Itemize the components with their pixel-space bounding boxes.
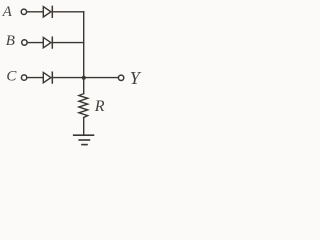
wire D2 cathode to bus	[53, 42, 84, 44]
svg-text:R: R	[94, 98, 105, 115]
wire D3 cathode to junction	[53, 77, 84, 79]
node A input terminal	[21, 9, 26, 14]
junction node dot	[82, 76, 86, 80]
resistor R zigzag	[79, 94, 88, 118]
wire C terminal to diode D3 anode	[27, 77, 43, 79]
node Y output terminal	[118, 75, 123, 80]
svg-text:A: A	[2, 4, 13, 20]
diode D2 (input B)	[43, 37, 51, 47]
wire D1 cathode to bus	[53, 11, 84, 13]
node B input terminal	[22, 40, 27, 45]
wire A terminal to diode D1 anode	[27, 11, 43, 13]
svg-text:C: C	[6, 69, 17, 85]
wire junction down to resistor	[83, 78, 85, 94]
diode D3 (input C)	[43, 72, 51, 82]
diode D1 (input A)	[43, 7, 51, 17]
ground symbol	[74, 134, 94, 136]
wire resistor to ground	[83, 118, 85, 136]
svg-text:B: B	[6, 33, 15, 49]
node C input terminal	[21, 75, 26, 80]
wire junction to output terminal	[84, 77, 118, 79]
wire vertical bus	[83, 12, 85, 78]
wire B terminal to diode D2 anode	[28, 42, 44, 44]
